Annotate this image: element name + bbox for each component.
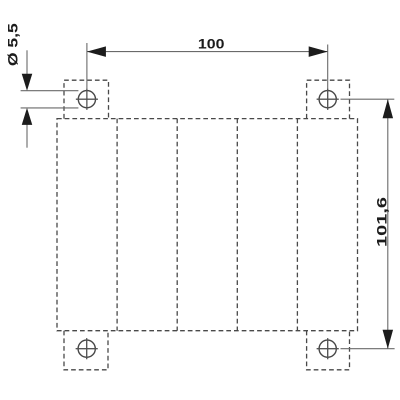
- svg-text:Ø 5,5: Ø 5,5: [5, 23, 20, 66]
- svg-text:100: 100: [198, 37, 225, 52]
- svg-text:101,6: 101,6: [375, 197, 390, 247]
